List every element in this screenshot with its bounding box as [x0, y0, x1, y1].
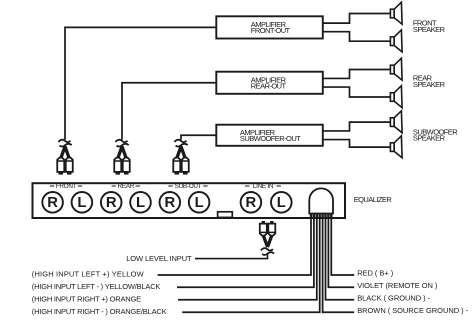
svg-text:R: R: [47, 195, 58, 211]
wire black power lead: [326, 218, 355, 300]
amplifier SUBWOOFER-OUT box U3: [216, 125, 322, 146]
wire amplifier 2 output - to speaker: [323, 87, 391, 97]
RCA pair low level input: [260, 221, 276, 255]
speaker LS3: [390, 58, 402, 80]
svg-text:BROWN ( SOURCE GROUND ) -: BROWN ( SOURCE GROUND ) -: [357, 306, 468, 315]
label (HIGH INPUT LEFT +) YELLOW: [32, 270, 145, 279]
wire Y-cable to amplifier 2 input: [122, 83, 217, 140]
label EQUALIZER: [354, 195, 393, 204]
label LINE IN: [245, 183, 281, 190]
wire violet power lead: [328, 218, 354, 288]
label (HIGH INPUT LEFT - ) YELLOW/BLACK: [32, 282, 161, 291]
svg-text:R: R: [246, 195, 257, 211]
RCA Y-cable sub-out: [173, 140, 189, 175]
wire Y-cable to amplifier 3 input: [181, 135, 217, 139]
amplifier REAR-OUT box U2: [216, 72, 322, 94]
svg-text:L: L: [77, 195, 86, 211]
svg-text:(HIGH INPUT RIGHT - ) ORANGE/B: (HIGH INPUT RIGHT - ) ORANGE/BLACK: [32, 307, 167, 316]
label SUB-OUT: [168, 183, 207, 190]
svg-text:SPEAKER: SPEAKER: [413, 80, 446, 89]
svg-text:RED ( B+ ): RED ( B+ ): [357, 269, 394, 278]
speaker LS1: [390, 2, 402, 24]
wire brown power lead: [323, 218, 355, 313]
RCA Y-cable rear: [114, 140, 130, 175]
svg-text:R: R: [164, 195, 175, 211]
svg-text:EQUALIZER: EQUALIZER: [354, 195, 393, 204]
label (HIGH INPUT RIGHT +) ORANGE: [32, 294, 141, 303]
speaker LS6: [390, 136, 402, 158]
svg-text:FRONT: FRONT: [56, 183, 77, 190]
svg-text:BLACK ( GROUND ) -: BLACK ( GROUND ) -: [357, 294, 430, 303]
wire low level input: [195, 253, 268, 259]
svg-text:LOW LEVEL INPUT: LOW LEVEL INPUT: [126, 254, 192, 263]
wire amplifier 1 output - to speaker: [323, 32, 391, 42]
wire red power lead: [331, 218, 354, 276]
label LOW LEVEL INPUT: [126, 254, 192, 263]
equalizer box: [33, 183, 346, 218]
label BLACK ( GROUND ) -: [357, 294, 430, 303]
svg-text:FRONT-OUT: FRONT-OUT: [251, 26, 291, 35]
svg-text:L: L: [195, 195, 204, 211]
wire yellow high input: [158, 218, 311, 276]
svg-text:SPEAKER: SPEAKER: [413, 134, 446, 143]
label REAR SPEAKER: [413, 74, 446, 89]
speaker LS5: [390, 111, 402, 133]
svg-text:SUBWOOFER-OUT: SUBWOOFER-OUT: [240, 134, 301, 143]
harness connector on equalizer: [309, 188, 333, 213]
svg-text:(HIGH INPUT RIGHT +) ORANGE: (HIGH INPUT RIGHT +) ORANGE: [32, 294, 141, 303]
wire amplifier 1 output + to speaker: [323, 14, 391, 24]
label REAR: [112, 183, 140, 190]
svg-text:(HIGH INPUT LEFT - ) YELLOW/BL: (HIGH INPUT LEFT - ) YELLOW/BLACK: [32, 282, 161, 291]
svg-text:L: L: [277, 195, 286, 211]
svg-text:SUB-OUT: SUB-OUT: [175, 183, 202, 190]
speaker LS4: [390, 86, 402, 108]
speaker LS2: [390, 30, 402, 52]
harness wire comb: [310, 214, 333, 219]
wire orange/black high input: [182, 218, 320, 313]
jack sub-out R: [160, 192, 181, 213]
jack rear R: [101, 192, 122, 213]
wire amplifier 3 output + to speaker: [323, 122, 391, 131]
wire yellow/black high input: [177, 218, 314, 288]
label SUBWOOFER SPEAKER: [413, 127, 458, 142]
svg-text:(HIGH INPUT LEFT +) YELLOW: (HIGH INPUT LEFT +) YELLOW: [32, 270, 145, 279]
svg-text:SPEAKER: SPEAKER: [413, 25, 446, 34]
label FRONT SPEAKER: [413, 19, 446, 34]
jack front L: [72, 192, 93, 213]
wire Y-cable to amplifier 1 input: [65, 27, 217, 139]
svg-text:LINE IN: LINE IN: [253, 183, 274, 190]
svg-text:REAR: REAR: [118, 183, 135, 190]
svg-text:VIOLET (REMOTE ON ): VIOLET (REMOTE ON ): [357, 281, 438, 290]
label RED ( B+ ): [357, 269, 394, 278]
switch on equalizer bottom: [218, 212, 233, 218]
jack sub-out L: [189, 192, 210, 213]
amplifier FRONT-OUT box U1: [216, 16, 322, 38]
wire amplifier 3 output - to speaker: [323, 140, 391, 148]
label VIOLET (REMOTE ON ): [357, 281, 438, 290]
label FRONT: [50, 183, 82, 190]
jack line-in R: [241, 192, 262, 213]
jack front R: [42, 192, 63, 213]
svg-text:REAR-OUT: REAR-OUT: [251, 82, 287, 91]
wire orange high input: [178, 218, 317, 300]
label (HIGH INPUT RIGHT - ) ORANGE/BLACK: [32, 307, 167, 316]
jack rear L: [130, 192, 151, 213]
RCA Y-cable front: [57, 140, 73, 175]
jack line-in L: [271, 192, 292, 213]
svg-text:R: R: [106, 195, 117, 211]
label BROWN ( SOURCE GROUND ) -: [357, 306, 468, 315]
svg-text:L: L: [136, 195, 145, 211]
wire amplifier 2 output + to speaker: [323, 70, 391, 79]
